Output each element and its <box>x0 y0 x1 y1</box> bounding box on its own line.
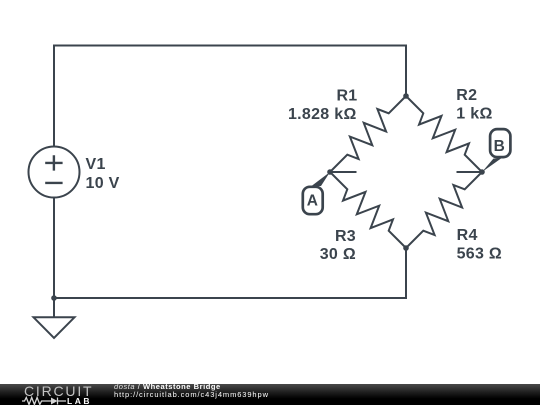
svg-text:1.828 kΩ: 1.828 kΩ <box>288 106 357 123</box>
svg-text:563 Ω: 563 Ω <box>457 245 502 262</box>
svg-text:R3: R3 <box>335 228 356 245</box>
svg-text:V1: V1 <box>86 156 106 173</box>
svg-text:R2: R2 <box>456 87 477 104</box>
svg-text:B: B <box>494 138 505 155</box>
svg-text:30 Ω: 30 Ω <box>320 246 356 263</box>
svg-text:R1: R1 <box>336 87 357 104</box>
svg-text:1 kΩ: 1 kΩ <box>456 106 492 123</box>
svg-text:R4: R4 <box>457 227 478 244</box>
svg-text:10 V: 10 V <box>86 175 120 192</box>
svg-text:A: A <box>307 193 318 210</box>
